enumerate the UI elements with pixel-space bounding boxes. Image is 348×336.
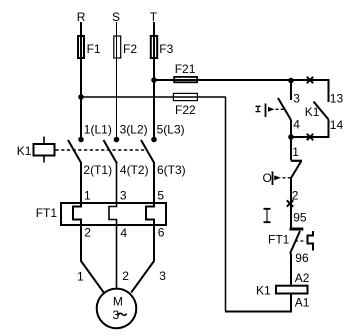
svg-text:2: 2 xyxy=(122,269,129,283)
svg-text:95: 95 xyxy=(293,210,307,224)
svg-text:4: 4 xyxy=(293,118,300,132)
svg-text:O: O xyxy=(263,171,272,185)
svg-text:K1: K1 xyxy=(17,144,32,158)
svg-text:3(L2): 3(L2) xyxy=(120,122,148,136)
svg-text:14: 14 xyxy=(330,118,344,132)
svg-text:3: 3 xyxy=(159,269,166,283)
svg-text:2: 2 xyxy=(84,226,91,240)
svg-text:6: 6 xyxy=(158,226,165,240)
svg-text:T: T xyxy=(150,10,158,24)
svg-text:13: 13 xyxy=(330,92,344,106)
svg-text:F3: F3 xyxy=(159,42,173,56)
svg-text:FT1: FT1 xyxy=(36,206,58,220)
svg-text:F22: F22 xyxy=(175,103,196,117)
svg-text:R: R xyxy=(77,10,86,24)
svg-text:F1: F1 xyxy=(87,42,101,56)
svg-text:96: 96 xyxy=(295,251,309,265)
svg-text:5(L3): 5(L3) xyxy=(157,122,185,136)
svg-text:K1: K1 xyxy=(256,283,271,297)
svg-text:4(T2): 4(T2) xyxy=(120,163,149,177)
svg-text:2: 2 xyxy=(292,189,299,203)
svg-text:3: 3 xyxy=(120,188,127,202)
svg-text:F21: F21 xyxy=(175,62,196,76)
svg-text:F2: F2 xyxy=(123,42,137,56)
svg-text:1: 1 xyxy=(84,188,91,202)
svg-text:K1: K1 xyxy=(305,105,320,119)
svg-text:S: S xyxy=(112,10,120,24)
svg-text:FT1: FT1 xyxy=(268,233,290,247)
svg-text:4: 4 xyxy=(120,226,127,240)
svg-text:M: M xyxy=(113,294,123,308)
svg-text:2(T1): 2(T1) xyxy=(83,163,112,177)
svg-text:3: 3 xyxy=(113,308,120,322)
svg-text:A2: A2 xyxy=(295,271,310,285)
svg-text:1(L1): 1(L1) xyxy=(84,122,112,136)
svg-text:6(T3): 6(T3) xyxy=(157,163,186,177)
svg-text:5: 5 xyxy=(157,188,164,202)
svg-text:3: 3 xyxy=(293,92,300,106)
svg-text:1: 1 xyxy=(292,145,299,159)
svg-text:1: 1 xyxy=(77,269,84,283)
svg-text:A1: A1 xyxy=(295,295,310,309)
